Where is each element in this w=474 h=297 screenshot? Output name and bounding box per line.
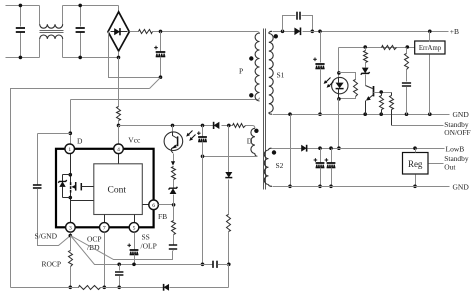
label FB <box>158 212 167 221</box>
transformer core <box>264 29 266 190</box>
wire aux return <box>201 155 258 159</box>
wire bridge plus stub <box>130 31 139 33</box>
capacitor X-cap C2 <box>76 4 85 60</box>
svg-text:+B: +B <box>450 27 459 36</box>
wire OCP column <box>103 233 107 290</box>
capacitor Vcc electrolytic C5 <box>197 124 207 267</box>
wire ErrAmp top <box>429 32 431 42</box>
svg-text:D: D <box>247 137 253 146</box>
svg-text:FB: FB <box>158 212 167 221</box>
svg-text:Out: Out <box>444 163 456 172</box>
pin 4 Vcc <box>114 144 124 154</box>
svg-text:6: 6 <box>152 203 155 209</box>
svg-text:ROCP: ROCP <box>42 260 62 269</box>
svg-text:1: 1 <box>68 147 71 153</box>
wire startup column <box>118 58 120 107</box>
wire AC line bottom rail <box>6 39 119 58</box>
diode bottom D4 <box>164 284 169 291</box>
svg-text:Reg: Reg <box>408 159 423 169</box>
svg-text:P: P <box>239 67 243 76</box>
label P <box>239 67 243 76</box>
wire to bridge top <box>118 6 120 12</box>
label S/GND <box>35 231 58 240</box>
IC U1 outline <box>56 149 154 228</box>
label SS <box>141 233 157 251</box>
wire gnd diagonal A <box>71 236 173 260</box>
transistor Q2 <box>366 86 374 115</box>
wire bottom bus right <box>170 287 229 289</box>
resistor feedback R12 <box>382 46 397 50</box>
wire DC-minus diagonal <box>150 78 161 89</box>
node primary dot lower <box>249 93 253 97</box>
label D aux <box>247 137 253 146</box>
capacitor drain snubber C4 <box>33 185 42 188</box>
wire drain line to primary <box>71 98 260 100</box>
svg-text:5: 5 <box>133 225 136 231</box>
zener FB ZD1 <box>169 187 178 205</box>
resistor fusible R1 <box>139 30 153 34</box>
svg-text:GND: GND <box>453 110 470 119</box>
wire BD mid <box>228 180 230 215</box>
wire aux top lead <box>246 126 255 129</box>
optocoupler phototransistor PC1a <box>164 124 195 153</box>
wire S1 to +B rail <box>273 30 295 34</box>
diode S2 D6 <box>301 145 306 152</box>
wire bottom bus left <box>11 287 79 289</box>
resistor divider R9 <box>364 48 368 68</box>
svg-text:3: 3 <box>69 225 72 231</box>
wire bottom bus mid <box>101 287 164 289</box>
pin 6 FB <box>149 200 159 210</box>
label GND bottom <box>453 182 470 191</box>
resistor FB upper R6 <box>171 154 176 189</box>
node aux dot <box>254 129 258 133</box>
wire S2 GND line <box>273 186 450 188</box>
wire Cont to pin5 <box>134 215 136 223</box>
transformer primary winding P <box>255 33 259 101</box>
wire FB line <box>159 203 176 207</box>
pin 1 D <box>65 144 75 154</box>
resistor BD R4 <box>227 215 231 232</box>
resistor aux R3 <box>227 124 246 128</box>
label OCP <box>87 235 102 253</box>
wire DC-minus bus <box>11 89 150 288</box>
pin 7 OCP/BD <box>100 223 110 233</box>
svg-text:4: 4 <box>117 147 120 153</box>
svg-text:Vcc: Vcc <box>128 136 141 145</box>
capacitor snubber C10 <box>297 12 300 20</box>
wire BD lower <box>227 232 231 288</box>
label GND top <box>453 110 470 119</box>
label +B <box>450 27 459 36</box>
optocoupler LED PC1b <box>324 77 348 98</box>
wire Vcc bus <box>119 125 233 127</box>
svg-text:LowB: LowB <box>446 145 465 154</box>
diode MOSFET body <box>58 175 70 198</box>
pin 3 S/GND <box>66 223 76 233</box>
svg-text:GND: GND <box>453 182 470 191</box>
svg-text:S2: S2 <box>276 161 284 170</box>
wire gnd diagonal B <box>71 236 213 265</box>
wire feedback line <box>339 45 415 49</box>
svg-text:S/GND: S/GND <box>35 231 58 240</box>
snubber cap branch <box>283 16 313 32</box>
label LowB <box>446 145 465 154</box>
node S2 dot <box>272 150 276 154</box>
wire drain to snubber cap <box>38 134 71 185</box>
transformer auxiliary winding D <box>251 128 258 156</box>
wire gnd tie column <box>288 115 292 189</box>
resistor bottom R5 <box>79 286 101 290</box>
wire bridge minus leg <box>109 32 161 78</box>
wire opto to LowB <box>337 99 341 151</box>
wire AC line top rail <box>6 6 119 25</box>
capacitor SS electrolytic C7 <box>127 233 138 267</box>
resistor R11 <box>390 93 394 126</box>
svg-text:/OLP: /OLP <box>141 242 157 251</box>
svg-text:ErrAmp: ErrAmp <box>419 45 442 52</box>
resistor FB lower R7 <box>172 205 176 245</box>
diode aux rectifier D2 <box>214 122 220 129</box>
wire standby out <box>429 163 444 165</box>
svg-text:S1: S1 <box>277 71 285 80</box>
diode output D5 <box>294 28 314 36</box>
label S2 <box>276 161 284 170</box>
wire standby on-off <box>392 125 444 127</box>
transistor MOSFET Q1 <box>71 182 82 193</box>
wire Cont to pin7 <box>104 215 106 223</box>
bridge rectifier BR1 <box>108 12 129 51</box>
svg-text:Cont: Cont <box>108 186 127 196</box>
pin 5 SS/OLP <box>129 223 139 233</box>
wire MOSFET gate lead <box>82 186 94 188</box>
resistor RC leg R13 <box>405 48 409 82</box>
wire Reg bottom <box>413 175 417 189</box>
wire startup to Vcc bus <box>117 121 121 145</box>
wire BD column upper <box>228 126 230 173</box>
Reg block <box>403 153 429 175</box>
transformer secondary winding S1 <box>269 31 273 114</box>
wire LowB line <box>308 146 445 150</box>
node S/GND junction <box>69 233 73 238</box>
wire +DC rail to primary <box>153 31 260 34</box>
node primary dot upper <box>249 56 253 60</box>
capacitor S2 electrolytic C13 <box>314 149 325 189</box>
svg-text:7: 7 <box>103 225 106 231</box>
inductor common-mode choke L1 <box>40 24 64 39</box>
label ROCP <box>42 260 62 269</box>
label D pin <box>77 137 83 146</box>
Cont block <box>94 164 143 215</box>
resistor startup R2 <box>117 107 121 121</box>
capacitor X-cap C1 <box>16 4 25 60</box>
wire opto LED column <box>337 48 341 78</box>
wire MOSFET source <box>69 193 73 223</box>
capacitor series C6 <box>213 261 229 268</box>
wire bridge bottom to AC rail <box>117 52 121 60</box>
wire MOSFET source sense <box>71 200 94 202</box>
transformer secondary winding S2 <box>264 148 272 186</box>
resistor ROCP <box>69 236 73 290</box>
label Standby Out <box>444 154 469 172</box>
label Vcc <box>128 136 141 145</box>
label S1 <box>277 71 285 80</box>
diode BD D3 <box>225 172 232 178</box>
capacitor FB C9 <box>169 245 177 251</box>
resistor R10 <box>380 93 384 115</box>
wire S2 line <box>272 148 302 150</box>
resistor opto parallel R8 <box>337 73 357 101</box>
zener ZD2 <box>361 68 370 86</box>
wire drain column <box>69 100 73 145</box>
wire secondary GND bus <box>273 112 450 116</box>
wire snubber cap to S/GND <box>38 189 71 246</box>
ErrAmp block <box>415 41 445 54</box>
svg-text:ON/OFF: ON/OFF <box>444 128 470 137</box>
label Standby ON/OFF <box>444 120 470 137</box>
svg-text:D: D <box>77 137 83 146</box>
capacitor C8 <box>115 263 123 290</box>
wire collector node <box>374 90 392 94</box>
capacitor +B electrolytic C11 <box>313 32 324 116</box>
wire pin4 to Cont <box>118 154 120 164</box>
svg-text:SS: SS <box>142 233 150 242</box>
wire Cont to pin6 <box>143 204 149 206</box>
capacitor bulk electrolytic C3 <box>154 30 165 79</box>
node S1 dot <box>274 34 278 38</box>
wire Reg top <box>415 149 417 153</box>
capacitor RC leg C12 <box>402 83 411 115</box>
wire +B rail <box>303 30 449 34</box>
wire MOSFET drain lead <box>69 154 73 183</box>
capacitor S2 electrolytic C14 <box>325 149 336 189</box>
wire ErrAmp bottom <box>429 55 431 115</box>
